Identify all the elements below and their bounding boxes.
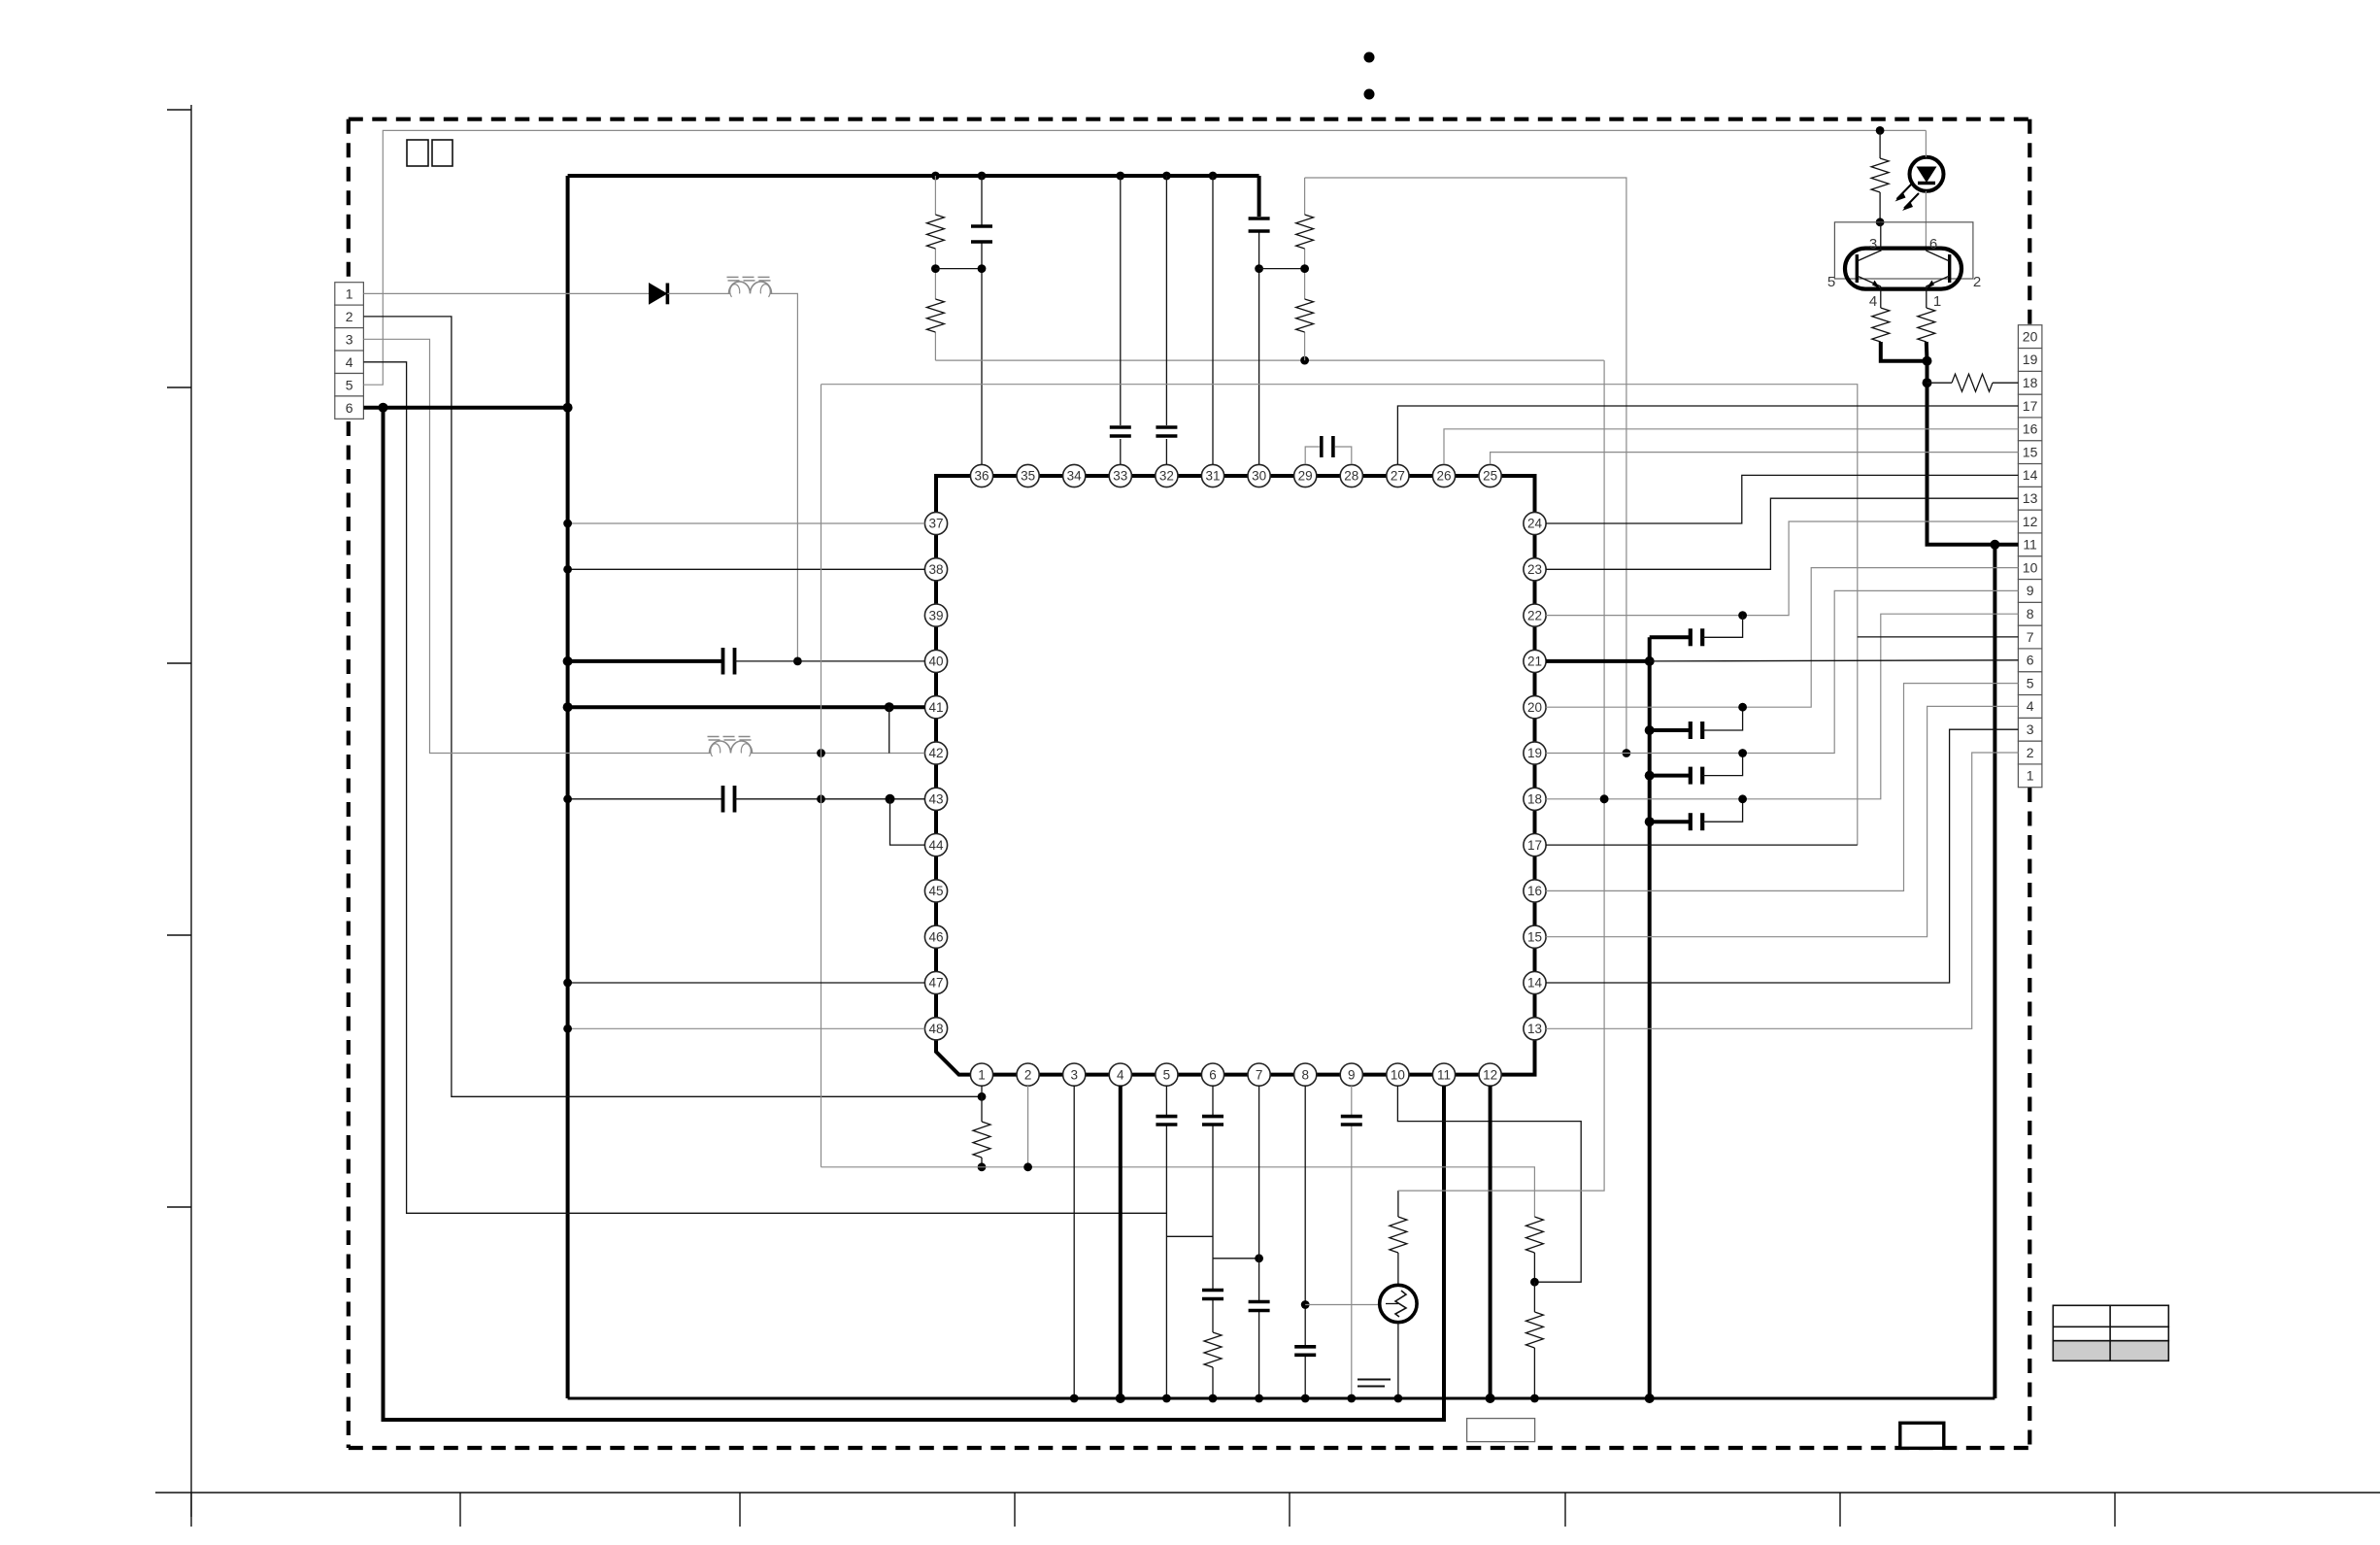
IC U1 pin 6 [1201, 1063, 1224, 1086]
dashed enclosure left border lower segment [347, 421, 351, 1448]
svg-text:11: 11 [2023, 537, 2037, 553]
node pin42 row / x845 vertical [817, 749, 825, 757]
wire CN1 pin1 row (gray) to diode [363, 292, 649, 294]
resistor R7 (pin1) [1918, 308, 1935, 342]
wire pin16 to CN2 box5 [1546, 684, 2018, 891]
svg-text:29: 29 [1298, 469, 1313, 484]
wire pin24 to CN2 box14 [1546, 475, 2018, 523]
wire ground run G1 (bus bottom) [568, 1397, 1995, 1400]
svg-text:38: 38 [928, 562, 943, 577]
wire pin1 column [981, 1086, 983, 1122]
svg-text:42: 42 [928, 746, 943, 760]
node C1-column / link junction [978, 264, 987, 273]
node pin43 row / x845 vertical [817, 794, 825, 803]
IC U1 pin 3 [1063, 1063, 1086, 1086]
wire pin7 column with cap [1258, 1086, 1260, 1398]
svg-text:8: 8 [1301, 1067, 1309, 1082]
svg-text:15: 15 [2023, 444, 2038, 459]
wire pin19 to CN2 box9 [1546, 590, 2018, 753]
svg-text:16: 16 [2023, 421, 2038, 437]
svg-text:6: 6 [346, 400, 353, 416]
capacitor C12 (pin8) [1294, 1345, 1316, 1349]
svg-text:9: 9 [2027, 583, 2034, 598]
wire row y183 from R3 top to east [1305, 178, 1626, 754]
node cap column/G1 [1645, 1394, 1655, 1403]
wire L1 east then down to pin40 row [770, 293, 797, 661]
svg-text:4: 4 [1117, 1067, 1124, 1082]
wire pin38 row [568, 568, 925, 570]
node R3/R4 mid junction [1300, 264, 1309, 273]
IC U1 pin 21 [1524, 650, 1546, 672]
placeholder square 2 [432, 140, 453, 166]
resistor R3 (right stack upper) [1296, 215, 1314, 249]
svg-text:3: 3 [1869, 236, 1877, 252]
wire row joining pin4net/pin5 column at y1273 [1166, 1235, 1213, 1237]
wire pin31 column [1212, 176, 1214, 464]
svg-text:46: 46 [928, 929, 943, 944]
wire diode to inductor L1 [667, 292, 730, 294]
resistor R9 (pin1 pulldown) [973, 1122, 990, 1158]
svg-text:15: 15 [1527, 929, 1542, 944]
svg-text:31: 31 [1205, 469, 1220, 484]
svg-text:21: 21 [1527, 655, 1542, 669]
transistor Q1/Q2 package rectangle [1834, 222, 1973, 279]
node pin41/bus [563, 702, 573, 712]
IC U1 pin 33 [1109, 464, 1131, 487]
dashed enclosure bottom border [349, 1446, 2030, 1450]
svg-text:7: 7 [2027, 629, 2034, 645]
node LED resistor tap [1876, 126, 1885, 135]
wire thick column x2054 down to ground run [1993, 545, 1996, 1398]
svg-text:13: 13 [2023, 490, 2038, 506]
svg-text:23: 23 [1527, 562, 1542, 577]
svg-text:11: 11 [1437, 1067, 1451, 1082]
svg-text:4: 4 [1869, 293, 1877, 310]
wire pin3 column [1073, 1086, 1075, 1398]
frame left tick 5 [167, 1206, 191, 1208]
svg-text:2: 2 [1973, 274, 1981, 290]
wire y395 long row [821, 385, 1858, 845]
node pin8/G1 [1301, 1394, 1310, 1403]
frame bottom tick g [1839, 1493, 1841, 1527]
node cap C15 tap on pin20 row [1738, 703, 1747, 712]
node CN1 pin6 row / bus [563, 403, 573, 413]
wire CN2 box6 row from y395 drop [1650, 660, 2019, 661]
capacitor C4 (pin30 column) [1249, 217, 1270, 220]
svg-text:18: 18 [1527, 792, 1542, 807]
IC U1 pin 38 [924, 558, 947, 581]
IC U1 pin 12 [1479, 1063, 1501, 1086]
wire LED cathode column down to transistor pin 6 [1925, 130, 1927, 251]
svg-text:4: 4 [2027, 698, 2034, 714]
frame left vertical [190, 105, 192, 1517]
node pin40/bus [563, 656, 573, 666]
IC U1 pin 19 [1524, 742, 1546, 764]
wire pin10 route down-east-down-west [1397, 1086, 1581, 1282]
svg-text:5: 5 [2027, 675, 2034, 690]
frame bottom tick d [1014, 1493, 1016, 1527]
wire CN2 box17 row from pin27 riser [1397, 406, 2018, 464]
wire L2 east to pin42 [751, 753, 924, 755]
wire link C4-column to R-stack-right [1259, 268, 1305, 270]
inductor L1 [729, 282, 772, 294]
node y371 row / R-stack-right bottom [1300, 356, 1309, 365]
resistor R10 (pin6 lower) [1204, 1332, 1222, 1367]
svg-text:24: 24 [1527, 517, 1543, 531]
wire C6 east to pin40 [735, 660, 925, 662]
wire step pin41 to pin42 row [888, 707, 890, 753]
wire x845 vertical (y395 net) [821, 385, 822, 1167]
wire pin47 row [568, 982, 925, 984]
svg-text:7: 7 [1256, 1067, 1263, 1082]
node pin4/G1 [1116, 1394, 1125, 1403]
svg-text:14: 14 [1527, 976, 1543, 991]
IC U1 pin 22 [1524, 604, 1546, 626]
node bus/C-pin33 junction [1116, 172, 1124, 181]
wire R-stack-left column [934, 176, 936, 360]
wire pin33 column [1120, 176, 1122, 464]
IC U1 pin 48 [924, 1018, 947, 1040]
transistor Q2 (right) [1948, 254, 1951, 283]
node cap C16 tap on pin19 row [1738, 749, 1747, 757]
capacitor C14 (top, to pin22) [1650, 635, 1689, 639]
svg-text:33: 33 [1113, 469, 1127, 484]
node pin12/G1 [1486, 1394, 1495, 1403]
wire pin12 column thick [1489, 1086, 1492, 1398]
wire gray row y371 from R2 bottom to right [935, 359, 1603, 361]
svg-text:17: 17 [2023, 398, 2038, 414]
IC U1 pin 41 [924, 696, 947, 719]
wire base row pin8 to transistor Q3 [1305, 1304, 1380, 1306]
IC U1 pin 20 [1524, 696, 1546, 719]
wire pin8 column with cap [1304, 1086, 1306, 1398]
transistor Q1 pin3 lead [1880, 222, 1882, 252]
connector CN1 (left, 6-pin) body [335, 283, 364, 305]
node CN1 pin6 row / x394 drop [379, 403, 388, 413]
LED light arrow 1 [1897, 185, 1912, 200]
IC U1 pin 24 [1524, 512, 1546, 534]
IC U1 pin 7 [1248, 1063, 1270, 1086]
svg-text:3: 3 [1070, 1067, 1078, 1082]
capacitor C5 (between pins 29 and 28) [1305, 447, 1320, 464]
capacitor C8 (pin5) [1156, 1115, 1177, 1119]
resistor R8 (to CN2 pin 18) [1927, 382, 1953, 384]
svg-text:45: 45 [928, 884, 943, 898]
node pin47/bus [563, 979, 572, 988]
node L1 net joins pin40 row [793, 657, 802, 666]
node chain/G1 [1530, 1394, 1539, 1403]
IC U1 pin 28 [1340, 464, 1362, 487]
IC U1 pin 44 [924, 834, 947, 856]
svg-text:17: 17 [1527, 838, 1542, 853]
wire pin15 to CN2 box4 [1546, 706, 2018, 936]
svg-text:3: 3 [346, 332, 353, 348]
wire pin30 column with cap [1257, 176, 1261, 217]
node pin2 column on long row [1023, 1162, 1032, 1171]
IC U1 pin 31 [1201, 464, 1224, 487]
wire pin6 column with caps and resistor [1212, 1086, 1214, 1332]
wire pin4 column thick [1119, 1086, 1123, 1398]
IC U1 pin 40 [924, 650, 947, 672]
node box18 resistor tap [1923, 378, 1932, 387]
frame bottom tick a [190, 1493, 192, 1527]
wire pin5 net: connector to LED anode (top gray run) [363, 130, 1926, 385]
node pin43/bus [563, 794, 572, 803]
wire row pin6-pin7 link y1296 [1213, 1258, 1259, 1260]
resistor R11 (above Q3) [1390, 1217, 1407, 1253]
dashed enclosure left border upper segment [347, 119, 351, 280]
wire CN1 pin4 row down to long bottom run [363, 362, 1166, 1214]
resistor chain R12 (upper) [1525, 1217, 1543, 1253]
wire pin48 row [568, 1027, 925, 1029]
node bus/pin31 junction [1209, 172, 1218, 181]
wire Q3 collector row east [1398, 360, 1604, 1191]
svg-text:26: 26 [1436, 469, 1451, 484]
svg-text:1: 1 [2027, 768, 2034, 784]
LED D2 (emitter diode) [1910, 157, 1944, 191]
wire pin13 to CN2 box2 [1546, 753, 2018, 1028]
wire pin40 row thick segment to capacitor [568, 659, 721, 663]
op-amp / IC U1 package outline [936, 476, 1535, 1075]
IC U1 pin 16 [1524, 880, 1546, 902]
wire Q1 emitter pin4 lead down [1880, 286, 1882, 308]
IC U1 pin 9 [1340, 1063, 1362, 1086]
node pin9/G1 [1347, 1394, 1356, 1403]
svg-text:1: 1 [1933, 293, 1941, 310]
svg-text:34: 34 [1067, 469, 1083, 484]
dashed enclosure right border upper segment [2028, 119, 2031, 325]
frame left tick 1 [167, 109, 191, 111]
node pin3/G1 [1070, 1394, 1079, 1403]
IC U1 pin 35 [1017, 464, 1039, 487]
resistor R6 (pin4) [1872, 308, 1890, 342]
IC U1 pin 13 [1524, 1018, 1546, 1040]
svg-text:9: 9 [1348, 1067, 1356, 1082]
wire pin22 to CN2 box12 [1546, 521, 2018, 616]
node emitter junction [1923, 356, 1932, 366]
frame bottom tick h [2114, 1493, 2116, 1527]
wire thick column down to box11 feed [1927, 361, 2019, 545]
IC U1 pin 47 [924, 971, 947, 993]
wire thick cap column x1698 [1648, 637, 1652, 1398]
svg-text:39: 39 [928, 608, 943, 622]
node pin2-net joins pin1 column [978, 1092, 987, 1101]
capacitor C2 (pin33 column) [1110, 425, 1131, 429]
node y183 drop joins pin19 row [1623, 749, 1631, 757]
node R1/R2 mid junction [931, 264, 940, 273]
wire pin41 row thick [568, 705, 925, 709]
svg-text:13: 13 [1527, 1022, 1542, 1036]
svg-text:32: 32 [1159, 469, 1174, 484]
transistor pair oval body [1845, 249, 1961, 289]
wire pin20 to CN2 box10 [1546, 568, 2018, 708]
node pin41 row step tap [885, 702, 894, 712]
svg-text:3: 3 [2027, 722, 2034, 737]
node cap C17 tap on pin18 row [1738, 794, 1747, 803]
dashed enclosure right border lower segment [2028, 788, 2031, 1448]
node pin1 R bottom on long row [978, 1162, 987, 1171]
node pin7/G1 [1255, 1394, 1263, 1403]
label box (bottom center) [1467, 1419, 1535, 1442]
frame bottom tick c [739, 1493, 741, 1527]
svg-text:16: 16 [1527, 884, 1542, 898]
svg-text:20: 20 [1527, 700, 1542, 715]
wire long row y1202 east to resistor chain [821, 1167, 1535, 1217]
node x1652 vertical joins pin18 row [1600, 794, 1609, 803]
wire CN2 box7 row [1858, 636, 2019, 638]
node bus/C-pin36 junction [978, 172, 987, 181]
IC U1 pin 36 [970, 464, 992, 487]
wire CN1 pin6 thick row to bus [363, 406, 567, 410]
resistor R2 (left stack lower) [926, 299, 944, 332]
wire bus top horizontal [568, 174, 1259, 178]
IC U1 pin 37 [924, 512, 947, 534]
transistor Q3 (circle device) [1397, 1191, 1399, 1217]
node box11 branch [1990, 540, 1999, 550]
frame left tick 2 [167, 386, 191, 388]
wire pin32 column [1165, 176, 1167, 464]
svg-text:4: 4 [346, 354, 353, 370]
svg-text:41: 41 [928, 700, 943, 715]
node chain mid / pin10 net [1530, 1278, 1539, 1287]
wire R6 bottom thick step to junction [1881, 342, 1927, 361]
node Q3 emitter/G1 [1394, 1394, 1403, 1403]
node pin8 base tap [1301, 1300, 1310, 1309]
node pin21 / cap column [1645, 656, 1655, 666]
wire step pin43 to pin44 row [890, 799, 925, 845]
LED light arrow 2 [1904, 193, 1919, 209]
capacitor C11 (pin7) [1249, 1300, 1270, 1304]
IC U1 pin 45 [924, 880, 947, 902]
svg-text:30: 30 [1252, 469, 1266, 484]
svg-text:19: 19 [2023, 352, 2038, 367]
svg-text:20: 20 [2023, 328, 2038, 344]
node bus/R-stack-left junction [931, 172, 940, 181]
IC U1 pin 1 [970, 1063, 992, 1086]
svg-text:40: 40 [928, 655, 943, 669]
svg-text:19: 19 [1527, 746, 1542, 760]
node pin48/bus [563, 1024, 572, 1033]
svg-text:36: 36 [974, 469, 989, 484]
svg-text:22: 22 [1527, 608, 1542, 622]
revision table [2053, 1305, 2168, 1327]
node pin18 row / x1652 vertical [1600, 794, 1609, 803]
frame bottom tick b [459, 1493, 461, 1527]
dashed enclosure top border [349, 118, 2030, 121]
svg-text:12: 12 [1483, 1067, 1497, 1082]
IC U1 pin 34 [1063, 464, 1086, 487]
capacitor C13 (pin9) [1341, 1115, 1362, 1119]
wire pin14 to CN2 box3 [1546, 729, 2018, 983]
svg-text:5: 5 [1827, 274, 1835, 290]
node link on pin7 column [1255, 1254, 1263, 1262]
resistor R4 (right stack lower) [1296, 299, 1314, 332]
IC U1 pin 15 [1524, 925, 1546, 948]
IC U1 pin 4 [1109, 1063, 1131, 1086]
svg-text:6: 6 [1209, 1067, 1217, 1082]
svg-text:47: 47 [928, 976, 943, 991]
wire thick vertical x394 down to ground run G2 [384, 408, 1445, 1420]
svg-text:14: 14 [2023, 467, 2038, 483]
capacitor C3 (pin32 column) [1156, 425, 1177, 429]
wire pin43 row from bus through capacitor [568, 798, 721, 800]
svg-text:10: 10 [1391, 1067, 1405, 1082]
wire pin9 column with cap [1351, 1086, 1353, 1398]
IC U1 pin 32 [1156, 464, 1178, 487]
node pin38/bus [563, 565, 572, 574]
dot marker top center 2 [1364, 89, 1375, 100]
IC U1 pin 18 [1524, 788, 1546, 810]
svg-text:2: 2 [2027, 745, 2034, 760]
IC U1 pin 30 [1248, 464, 1270, 487]
resistor R5 (LED bias) [1879, 130, 1881, 158]
svg-text:8: 8 [2027, 606, 2034, 621]
wire pin36 column [981, 176, 983, 464]
IC U1 pin 8 [1294, 1063, 1317, 1086]
svg-text:43: 43 [928, 792, 943, 807]
node bus/C-pin32 junction [1162, 172, 1171, 181]
svg-text:6: 6 [2027, 653, 2034, 668]
ground marker double bar [1358, 1379, 1391, 1381]
capacitor C7 (pin43 row) [721, 786, 725, 813]
wire pin21 thick row to cap column [1546, 659, 1650, 663]
wire CN1 pin2 row down and east to pin1-resistor top [363, 317, 982, 1096]
node C4 column mid junction [1255, 264, 1263, 273]
IC U1 pin 29 [1294, 464, 1317, 487]
IC U1 pin 42 [924, 742, 947, 764]
capacitor C1 (pin36 column) [971, 224, 992, 228]
node pin6/G1 [1209, 1394, 1218, 1403]
svg-text:37: 37 [928, 517, 943, 531]
svg-text:48: 48 [928, 1022, 943, 1036]
wire CN2 box15 row from pin25 riser [1491, 453, 2019, 464]
svg-text:10: 10 [2023, 559, 2038, 575]
svg-text:25: 25 [1483, 469, 1497, 484]
wire pin17 to CN2 box7 [1546, 844, 1858, 846]
frame left tick 3 [167, 662, 191, 664]
wire bus vertical (thick main ground bus) [566, 176, 570, 1398]
IC U1 pin 46 [924, 925, 947, 948]
transistor Q1 (left) [1856, 254, 1859, 283]
svg-text:2: 2 [346, 309, 353, 324]
capacitor C17 (to pin18) [1645, 817, 1655, 826]
IC U1 pin 10 [1387, 1063, 1409, 1086]
wire pin5 column with capacitor [1165, 1086, 1167, 1398]
placeholder square 1 [407, 140, 428, 166]
node R5 bottom on package top edge [1876, 218, 1885, 226]
wire pin23 to CN2 box13 [1546, 498, 2018, 569]
node pin5/G1 [1162, 1394, 1171, 1403]
IC U1 pin 39 [924, 604, 947, 626]
svg-text:2: 2 [1024, 1067, 1032, 1082]
svg-text:35: 35 [1021, 469, 1035, 484]
IC U1 pin 2 [1017, 1063, 1039, 1086]
resistor R1 (left stack upper) [926, 215, 944, 249]
wire CN2 box16 row from pin26 riser [1444, 429, 2018, 464]
capacitor C9 (pin6 top) [1202, 1115, 1224, 1119]
frame left tick 4 [167, 934, 191, 936]
IC U1 pin 17 [1524, 834, 1546, 856]
svg-text:5: 5 [346, 377, 353, 392]
connector CN2 (right, 20-pin) body [2018, 764, 2042, 788]
IC U1 pin 43 [924, 788, 947, 810]
wire pin2 column [1027, 1086, 1029, 1167]
svg-text:6: 6 [1929, 236, 1937, 252]
wire pin18 to CN2 box8 [1546, 614, 2018, 799]
wire C7 east to pin43 [735, 798, 925, 800]
capacitor C16 (to pin19) [1645, 771, 1655, 781]
svg-text:18: 18 [2023, 375, 2038, 390]
